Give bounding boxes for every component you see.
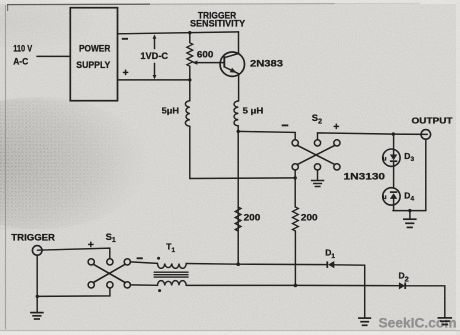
power supply box U1 xyxy=(70,8,117,101)
svg-text:200: 200 xyxy=(301,211,318,222)
svg-text:u: u xyxy=(383,155,387,162)
svg-text:5 μH: 5 μH xyxy=(243,105,264,115)
wire A transformer primary to D1 xyxy=(186,264,327,265)
resistor R3 200 right xyxy=(294,178,296,207)
resistor R2 200 left xyxy=(235,207,241,231)
wire trigger ground leg xyxy=(36,255,38,312)
pot wiper arrow from transistor base xyxy=(196,62,225,64)
wire output down right side xyxy=(393,139,426,210)
diode D3 1N3130 xyxy=(383,149,400,166)
svg-text:+: + xyxy=(123,67,129,79)
transformer core xyxy=(154,272,189,277)
ground below D1 xyxy=(358,318,371,325)
svg-text:200: 200 xyxy=(244,211,261,222)
svg-text:POWER: POWER xyxy=(79,43,110,54)
svg-text:u: u xyxy=(383,194,387,201)
wire S2 to output xyxy=(318,133,428,140)
resistor R1 600 potentiometer xyxy=(189,33,191,43)
wire S1 to transformer primary xyxy=(130,262,157,264)
label minus at S2 xyxy=(282,124,289,126)
svg-text:A-C: A-C xyxy=(13,55,28,66)
svg-text:+: + xyxy=(333,121,339,133)
diode D4 1N3130 xyxy=(383,188,400,205)
svg-text:1VD-C: 1VD-C xyxy=(140,50,168,61)
diode D1 xyxy=(326,261,328,268)
inductor L2 5uH right xyxy=(234,101,238,126)
wire S1 bottom pole to ground bus xyxy=(37,288,110,296)
wire minus supply rail xyxy=(118,32,239,34)
svg-text:2N383: 2N383 xyxy=(250,57,283,68)
svg-text:+: + xyxy=(88,239,94,251)
svg-text:600: 600 xyxy=(197,49,213,60)
polarity dot primary xyxy=(157,257,160,260)
switch S2 contacts and crossover xyxy=(292,140,298,146)
node junction L2 bottom xyxy=(237,130,240,133)
wire B transformer secondary to D2 xyxy=(186,284,399,286)
svg-text:OUTPUT: OUTPUT xyxy=(412,116,453,125)
node junction R2 bottom on wire A xyxy=(236,262,240,266)
diode D2 xyxy=(399,282,405,289)
switch S1 contacts and crossover xyxy=(88,259,94,265)
node junction plus rail / pot bottom xyxy=(188,78,191,81)
node junction R3 bottom on wire B xyxy=(294,284,298,288)
ground below output xyxy=(408,209,411,212)
wire plus supply rail xyxy=(118,79,190,81)
inductor L1 5uH left xyxy=(189,80,191,101)
svg-text:TRIGGER: TRIGGER xyxy=(11,231,55,242)
terminal TRIGGER xyxy=(32,246,42,256)
transformer primary winding xyxy=(158,264,187,269)
ground trigger xyxy=(30,313,44,319)
terminal OUTPUT xyxy=(421,130,431,140)
wire 110V to power supply xyxy=(37,55,70,57)
wire trigger to S1 xyxy=(37,248,109,259)
polarity dot secondary xyxy=(158,289,161,292)
border frame top line xyxy=(7,3,150,5)
ground below S2 xyxy=(317,170,319,180)
svg-text:1N3130: 1N3130 xyxy=(344,170,386,181)
transistor Q1 2N383 xyxy=(220,52,244,76)
ground below D2 xyxy=(438,318,453,325)
svg-text:5μH: 5μH xyxy=(162,106,179,116)
wire S2 lower pole stub xyxy=(294,170,296,178)
transformer secondary winding xyxy=(158,281,187,286)
svg-text:SENSITIVITY: SENSITIVITY xyxy=(190,18,246,29)
svg-text:SUPPLY: SUPPLY xyxy=(76,59,111,70)
node junction D3 chain top xyxy=(392,132,395,135)
svg-text:110 V: 110 V xyxy=(13,43,33,54)
wire from L1 bottom across to S2 pole xyxy=(190,177,295,180)
wire L2 node to S2 xyxy=(238,131,295,139)
label minus xyxy=(122,38,128,40)
wire S1 to transformer secondary xyxy=(130,284,157,286)
node junction pot top on minus rail xyxy=(188,31,191,34)
